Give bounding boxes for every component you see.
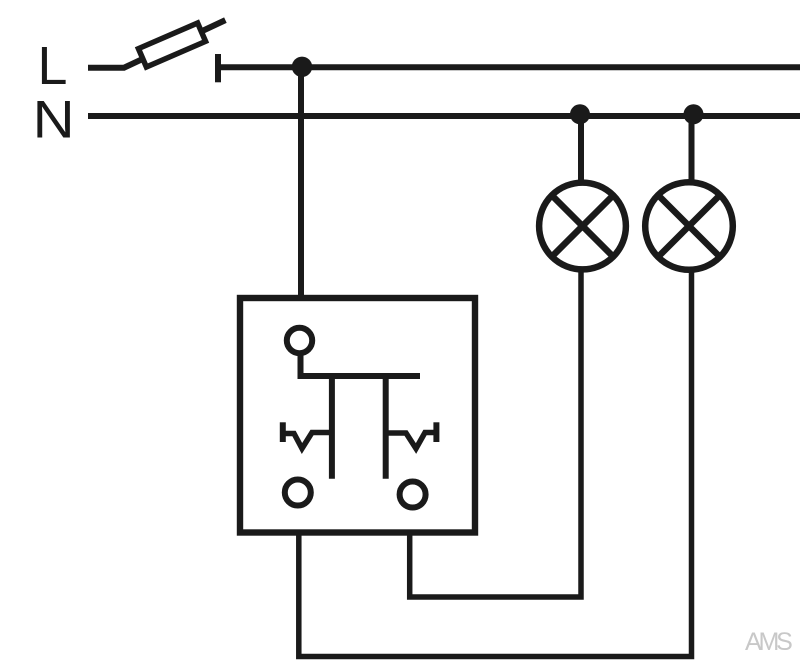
wire input terminal to pole bar xyxy=(301,356,421,377)
switch output terminal 2 xyxy=(400,482,426,508)
switch input terminal xyxy=(287,328,312,353)
switch pole 2 (moving contact) xyxy=(383,373,389,479)
junction dot on L line xyxy=(292,57,312,77)
junction dot N to lamp E1 xyxy=(570,104,590,124)
wire L feed with fuse through-line xyxy=(88,20,225,68)
lamp E1 xyxy=(539,183,626,270)
wire switch output 1 to lamp E2 xyxy=(299,271,692,657)
wire N line xyxy=(88,113,800,119)
wire L line to right edge xyxy=(221,64,800,70)
fuse fixed contact bar xyxy=(215,54,221,82)
fuse F1 body xyxy=(138,23,205,67)
rocker actuator 1 spring link xyxy=(283,433,332,449)
switch output terminal 1 xyxy=(285,480,311,506)
wire N junction down to lamp E2 xyxy=(689,114,695,184)
svg-text:N: N xyxy=(33,91,75,150)
rocker actuator 2 stop bar xyxy=(433,422,439,442)
wire switch output 2 to lamp E1 xyxy=(410,271,581,597)
svg-text:AMS: AMS xyxy=(745,628,792,656)
wire L junction down to switch box xyxy=(298,67,304,298)
rocker actuator 1 stop bar xyxy=(280,422,286,442)
junction dot N to lamp E2 xyxy=(684,104,704,124)
switch pole 1 (moving contact) xyxy=(329,373,335,479)
wire N junction down to lamp E1 xyxy=(578,114,584,184)
switch box S1 enclosure xyxy=(240,298,475,533)
svg-text:L: L xyxy=(38,36,68,96)
rocker actuator 2 spring link xyxy=(386,433,437,449)
lamp E2 xyxy=(645,182,733,270)
